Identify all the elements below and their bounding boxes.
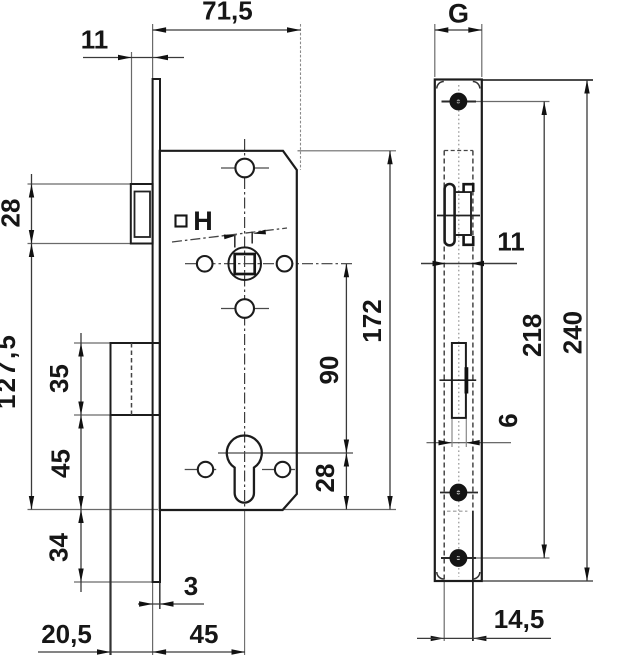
svg-text:218: 218 [517,314,547,357]
svg-text:34: 34 [44,533,74,562]
svg-text:3: 3 [184,571,198,601]
svg-text:172: 172 [357,299,387,342]
svg-text:14,5: 14,5 [494,604,545,634]
svg-text:90: 90 [314,356,344,385]
svg-text:11: 11 [497,227,525,257]
svg-text:45: 45 [46,449,76,478]
svg-text:6: 6 [493,413,523,427]
svg-text:H: H [193,206,213,236]
svg-text:11: 11 [81,25,109,55]
svg-text:240: 240 [557,311,587,354]
svg-text:G: G [448,0,469,29]
svg-text:45: 45 [190,619,219,649]
svg-text:28: 28 [310,464,340,493]
svg-text:127,5: 127,5 [0,333,21,409]
svg-text:35: 35 [44,364,74,393]
svg-text:20,5: 20,5 [41,619,92,649]
svg-text:71,5: 71,5 [202,0,253,26]
svg-text:28: 28 [0,199,26,228]
